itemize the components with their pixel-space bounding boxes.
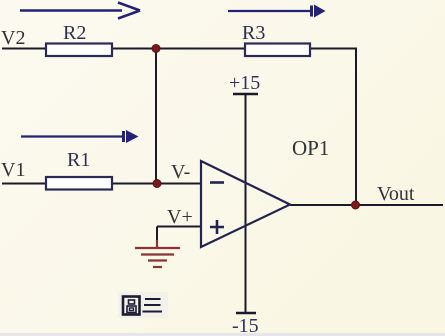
svg-text:R3: R3 — [242, 22, 265, 44]
svg-text:+15: +15 — [229, 72, 260, 94]
svg-text:V+: V+ — [167, 206, 193, 228]
svg-text:V-: V- — [171, 161, 190, 183]
svg-text:R2: R2 — [63, 22, 86, 44]
svg-text:-15: -15 — [232, 315, 259, 336]
svg-text:OP1: OP1 — [292, 136, 329, 160]
svg-text:V1: V1 — [1, 159, 25, 181]
svg-text:V2: V2 — [1, 27, 25, 49]
svg-text:Vout: Vout — [377, 183, 415, 205]
svg-text:R1: R1 — [67, 149, 90, 171]
